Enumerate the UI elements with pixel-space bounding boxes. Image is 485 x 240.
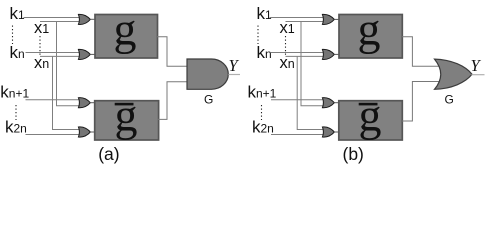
input or-gate 4 (b) [322,127,339,137]
wire g output to G gate [157,37,190,67]
or-gate G (b) [435,59,473,89]
input or-gate 2 (b) [322,49,339,59]
label k2n (b) [252,118,274,137]
dotted line k1..kn (b) [257,26,259,45]
label kn+1 [0,83,29,102]
wire Y output [228,74,240,76]
wire xn stub into gate [40,55,80,57]
input or-gate 3 (kn+1,x1) [78,98,95,108]
svg-text:G: G [204,93,213,107]
svg-text:(b): (b) [343,144,364,164]
wire g-bar output to G gate [157,82,190,120]
input or-gate 4 (k2n,xn) [78,127,95,137]
svg-text:kn+1: kn+1 [248,83,277,102]
wire kn+1 to gate (b) [271,99,324,101]
label k2n [5,118,27,137]
wire xn stub into gate (b) [286,55,325,57]
dotted line k1..kn [12,26,14,45]
svg-text:(a): (a) [98,144,119,164]
svg-text:Y: Y [471,56,482,75]
input or-gate 1 (k1,x1) [78,14,95,24]
block g-bar [95,89,159,140]
input or-gate 2 (kn,xn) [78,49,95,59]
svg-text:kn+1: kn+1 [0,83,29,102]
wire g-bar output to G gate (b) [402,82,440,122]
wire x1 stub into gate (b) [286,21,325,23]
wire k2n to gate [26,134,81,136]
wire x1 stub into gate [40,21,80,23]
label kn (b) [257,43,272,62]
label k1 (b) [257,4,273,23]
label kn [10,43,25,62]
svg-text:g: g [115,89,138,140]
svg-text:k1: k1 [257,4,273,23]
block g [95,3,158,58]
wire k1 to gate [24,17,81,19]
wire xn vertical drop (b) [297,56,324,129]
label xn [34,54,49,72]
wire kn to gate [26,52,81,54]
block g (b) [339,3,402,58]
block g-bar (b) [339,89,403,140]
svg-text:G: G [445,93,454,107]
wire Y output (b) [472,74,485,76]
svg-text:Y: Y [229,56,240,75]
and-gate G [187,59,228,89]
svg-text:k1: k1 [10,4,26,23]
label Y (b) [471,56,482,75]
label x1 (b) [280,19,295,37]
wire kn to gate (b) [271,52,324,54]
label G (b) [445,93,454,107]
svg-text:g: g [114,3,137,54]
dotted line x1..xn (b) [285,36,287,55]
svg-text:g: g [359,89,382,140]
svg-text:kn: kn [10,43,25,62]
wire k1 to gate (b) [270,17,324,19]
dotted line kn+1..k2n [15,105,17,120]
wire kn+1 to gate [26,99,81,101]
label k1 [10,4,26,23]
input or-gate 1 (b) [322,14,339,24]
input or-gate 3 (b) [322,98,339,108]
label Y [229,56,240,75]
svg-text:k2n: k2n [5,118,27,137]
wire x1 vertical drop [57,22,81,106]
label x1 [34,19,49,37]
wire x1 vertical drop (b) [301,22,324,106]
svg-text:k2n: k2n [252,118,274,137]
svg-text:kn: kn [257,43,272,62]
caption (b) [343,144,364,164]
label G [204,93,213,107]
label xn (b) [280,54,295,72]
wire g output to G gate (b) [402,37,440,66]
label kn+1 (b) [248,83,277,102]
wire k2n to gate (b) [271,134,324,136]
dotted line x1..xn [39,36,41,55]
caption (a) [98,144,119,164]
svg-text:g: g [358,3,381,54]
wire xn vertical drop [53,56,81,129]
dotted line kn+1..k2n (b) [261,105,263,120]
